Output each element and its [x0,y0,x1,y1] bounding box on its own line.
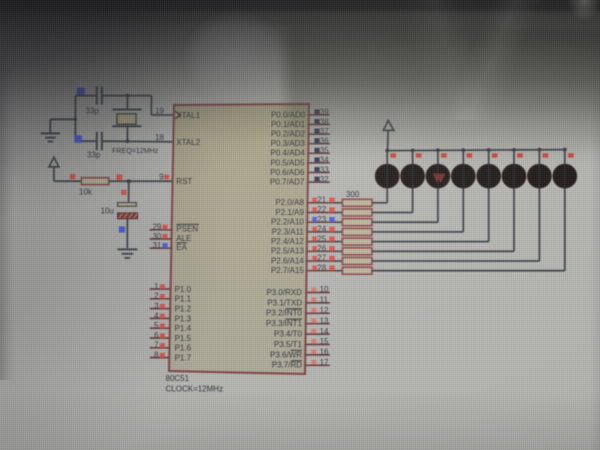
svg-text:P0.5/AD5: P0.5/AD5 [270,158,305,167]
svg-text:28: 28 [317,263,326,272]
svg-text:CLOCK=12MHz: CLOCK=12MHz [166,385,224,394]
svg-text:2: 2 [154,292,159,301]
svg-text:P3.5/T1: P3.5/T1 [274,340,303,349]
svg-text:25: 25 [317,234,326,243]
svg-text:P3.6/WR: P3.6/WR [270,350,302,359]
svg-text:RST: RST [176,177,192,186]
svg-text:P3.2/INT0: P3.2/INT0 [266,309,303,318]
svg-text:35: 35 [320,146,329,155]
svg-text:32: 32 [320,175,329,184]
svg-text:15: 15 [320,337,329,346]
svg-text:P3.1/TXD: P3.1/TXD [267,298,302,307]
svg-text:P3.0/RXD: P3.0/RXD [266,288,302,297]
svg-text:P3.7/RD: P3.7/RD [272,361,302,370]
svg-text:PSEN: PSEN [176,225,198,234]
svg-text:XTAL1: XTAL1 [176,111,200,120]
svg-text:P1.0: P1.0 [175,285,192,294]
svg-text:7: 7 [154,341,159,350]
svg-text:29: 29 [152,223,161,232]
svg-text:XTAL2: XTAL2 [176,138,200,147]
svg-text:P3.3/INT1: P3.3/INT1 [266,319,303,328]
svg-text:ALE: ALE [176,234,191,243]
svg-text:3: 3 [154,302,159,311]
svg-text:24: 24 [317,225,326,234]
svg-text:19: 19 [155,106,164,115]
svg-text:P0.0/AD0: P0.0/AD0 [271,110,306,119]
svg-text:9: 9 [159,172,164,181]
svg-text:31: 31 [152,241,161,250]
svg-text:P1.6: P1.6 [175,344,192,353]
svg-text:5: 5 [154,321,159,330]
svg-text:1: 1 [154,282,159,291]
svg-text:P1.4: P1.4 [175,324,192,333]
svg-text:P2.7/A15: P2.7/A15 [271,266,304,275]
svg-text:80C51: 80C51 [166,374,190,383]
svg-text:10k: 10k [79,187,93,196]
svg-text:P2.2/A10: P2.2/A10 [271,218,304,227]
svg-text:36: 36 [320,137,329,146]
svg-text:P2.6/A14: P2.6/A14 [271,256,304,265]
svg-text:34: 34 [320,156,329,165]
svg-text:30: 30 [152,232,161,241]
svg-text:33p: 33p [86,107,100,116]
svg-text:37: 37 [320,127,329,136]
svg-text:10u: 10u [101,207,114,216]
svg-text:14: 14 [320,327,329,336]
svg-text:17: 17 [320,358,329,367]
svg-text:21: 21 [317,196,326,205]
svg-text:33p: 33p [87,151,101,160]
svg-text:4: 4 [154,311,159,320]
svg-text:26: 26 [317,244,326,253]
svg-text:38: 38 [320,117,329,126]
svg-text:P2.4/A12: P2.4/A12 [271,237,304,246]
svg-text:11: 11 [320,296,329,305]
svg-text:FREQ=12MHz: FREQ=12MHz [112,147,159,155]
svg-text:P0.4/AD4: P0.4/AD4 [271,149,306,158]
svg-text:P1.7: P1.7 [175,354,192,363]
svg-text:EA: EA [176,243,187,252]
svg-text:P0.1/AD1: P0.1/AD1 [271,120,306,129]
svg-text:18: 18 [155,133,164,142]
svg-text:12: 12 [320,306,329,315]
svg-text:P0.2/AD2: P0.2/AD2 [271,130,306,139]
svg-text:10: 10 [320,285,329,294]
svg-text:P0.7/AD7: P0.7/AD7 [270,178,305,187]
svg-text:P2.0/A8: P2.0/A8 [275,198,304,207]
svg-text:P0.3/AD3: P0.3/AD3 [271,139,306,148]
svg-text:23: 23 [317,215,326,224]
svg-text:P1.5: P1.5 [175,334,192,343]
svg-text:P2.1/A9: P2.1/A9 [275,208,304,217]
svg-text:P1.1: P1.1 [175,295,192,304]
svg-text:8: 8 [154,351,159,360]
svg-text:300: 300 [346,190,360,199]
svg-text:39: 39 [320,108,329,117]
svg-text:13: 13 [320,316,329,325]
svg-text:P3.4/T0: P3.4/T0 [274,330,303,339]
svg-text:6: 6 [154,331,159,340]
svg-text:16: 16 [320,348,329,357]
svg-text:P1.2: P1.2 [175,305,192,314]
svg-text:P2.5/A13: P2.5/A13 [271,247,304,256]
svg-text:33: 33 [320,165,329,174]
svg-text:P1.3: P1.3 [175,314,192,323]
svg-text:P2.3/A11: P2.3/A11 [272,227,305,236]
svg-text:P0.6/AD6: P0.6/AD6 [270,168,305,177]
svg-text:22: 22 [317,205,326,214]
svg-text:27: 27 [317,254,326,263]
